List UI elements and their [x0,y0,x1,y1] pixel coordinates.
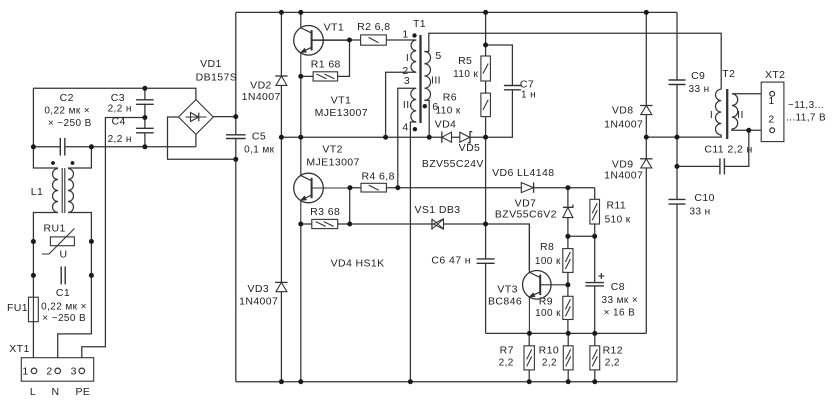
diode VD8 1N4007 [640,106,652,115]
wire T2 secondary bottom to XT2 pin2 [732,129,770,130]
svg-text:VD1: VD1 [200,58,222,70]
capacitor C10 33n [669,199,686,204]
svg-text:DB157S: DB157S [196,72,238,84]
wire VD2/VD3 vertical [280,12,282,381]
junction dot VT1 base node [347,38,352,43]
transformer T1 winding II [411,88,417,122]
svg-text:BZV55C6V2: BZV55C6V2 [495,209,557,221]
transformer T1 winding I [411,40,416,72]
svg-text:0,22 мк ×: 0,22 мк × [41,302,87,313]
svg-text:T2: T2 [722,68,735,80]
svg-text:2: 2 [46,366,52,378]
svg-text:R4 6,8: R4 6,8 [362,171,395,183]
svg-text:VT2: VT2 [322,143,342,155]
svg-text:C2: C2 [60,92,74,104]
diode VD6 LL4148 [521,182,533,192]
wire base row to R2 and T1 pin1 [312,39,417,41]
svg-text:110 к: 110 к [436,105,461,116]
svg-text:III: III [431,75,441,87]
junction dots VT2 base row [348,185,571,190]
svg-text:VD4: VD4 [435,119,457,131]
svg-text:II: II [737,109,744,121]
svg-text:2,2: 2,2 [499,358,514,369]
svg-text:I: I [710,109,713,121]
transistor VT1 MJE13007 [294,12,350,76]
wire C11 row [677,130,749,166]
svg-text:T1: T1 [413,18,426,30]
svg-text:R5: R5 [458,55,472,67]
diac VS1 DB3 [432,219,444,230]
capacitor C6 47n [477,259,495,263]
diode VD9 1N4007 [640,159,652,168]
svg-text:100 к: 100 к [535,256,561,267]
resistor R9 100k [563,296,573,319]
svg-text:II: II [403,99,410,111]
resistor R8 100k [563,249,573,273]
wire C3/C4 rail [144,88,146,147]
wire left input rail (L) [33,88,58,368]
wire control bottom row [486,332,647,334]
svg-text:33 мк ×: 33 мк × [602,295,639,306]
junction dots top rail [279,10,649,15]
zener diode VD7 BZV55C6V2 [563,205,573,218]
wire L net top row (choke to bridge AC1) [33,88,196,99]
wire VD8 junction row to T2 primary bottom [646,135,721,137]
svg-text:FU1: FU1 [7,302,28,314]
svg-text:VD5: VD5 [459,142,481,154]
wire C7 branch [486,45,513,137]
wire R11 branch [594,188,596,334]
svg-text:R6: R6 [443,91,457,103]
polarity dots T1 [412,33,427,131]
svg-text:C8: C8 [611,281,625,293]
svg-text:VD8: VD8 [612,105,634,117]
wire N row (C2 row to bridge AC2) [33,134,196,146]
wire VD7 branch [567,188,569,334]
plus sign C8 [598,273,604,279]
transformer T1 core [419,35,421,123]
svg-text:BC846: BC846 [488,295,522,307]
svg-text:MJE13007: MJE13007 [315,107,368,119]
svg-text:R9: R9 [539,295,553,307]
polarity dots L1 [51,161,74,165]
capacitor C5 0,1mk [226,135,246,139]
transformer T1 winding III [424,52,430,101]
wire -DC left rail lower (C5 bottom to bottom rail) [235,139,237,382]
svg-text:2,2: 2,2 [605,358,620,369]
svg-text:PE: PE [75,386,90,398]
svg-text:0,1 мк: 0,1 мк [244,144,275,155]
wire R5/R6 rail [485,12,487,137]
svg-text:N: N [52,386,60,398]
wire T1 pin4 down to bottom rail [410,122,416,382]
resistor R12 2,2 [590,346,600,370]
capacitor C1 0,22mk [61,266,65,284]
wire +DC left rail upper (to C5 top) [235,12,237,134]
svg-text:1: 1 [402,29,408,41]
svg-text:C6 47 н: C6 47 н [431,255,471,267]
bridge rectifier VD1 DB157S [179,100,214,135]
transistor VT2 MJE13007 [294,137,350,224]
wire VT2 base node vertical [349,188,351,224]
transformer T2 winding I [715,89,721,135]
wire VT1 emitter to VT2 collector [300,76,302,137]
inductor L1 core [62,168,65,213]
resistor R5 110k [481,56,491,81]
svg-text:2,2: 2,2 [542,358,557,369]
svg-text:1 н: 1 н [521,90,536,101]
junction dots DC bus [233,114,238,162]
junction dots VD8 row [644,135,680,140]
junction dot R5 top node [483,43,488,48]
wire PE line from C3/C4 midpoint to XT1 pin3 [82,118,145,369]
svg-text:VD4 HS1K: VD4 HS1K [331,257,385,269]
wire VT2 emitter down [300,224,302,382]
inductor L1 left winding [53,169,58,213]
junction dot VT3 base [565,282,570,287]
wire T1 pin6 down [424,100,429,137]
transformer T2 winding II [732,94,738,129]
svg-text:L: L [30,386,36,398]
svg-text:33 н: 33 н [689,207,710,218]
svg-text:100 к: 100 к [535,308,561,319]
svg-text:110 к: 110 к [453,69,478,80]
junction dots bottom rail [279,379,597,384]
wire R7 branch [528,333,530,381]
svg-text:R3 68: R3 68 [310,206,340,218]
wire T2 secondary top to XT2 pin1 [732,93,770,95]
svg-text:...11,7 В: ...11,7 В [786,113,826,124]
wire T1 pin2 to midpoint row [386,72,417,137]
varistor RU1 [42,229,75,255]
wire T1 pin5 to T2 primary [424,33,721,89]
wire T1 pin3 to R4 right [398,88,416,187]
svg-text:L1: L1 [31,186,43,198]
wire rail from VD5 node down through C6 [485,137,487,333]
svg-text:× ~250 В: × ~250 В [42,313,86,324]
diode VD3 1N4007 [275,282,287,291]
svg-text:R12: R12 [603,344,623,356]
svg-text:510 к: 510 к [605,215,631,226]
svg-text:~11,3...: ~11,3... [788,100,824,111]
capacitor C3 2,2n [136,100,154,105]
capacitor C7 1n [504,86,521,90]
resistor R2 6,8 [361,35,387,45]
junction dots VD7/R11 row [565,234,597,239]
wire R12 branch [594,333,596,381]
svg-text:C5: C5 [252,131,266,143]
transformer T2 core [726,89,728,139]
svg-text:C4: C4 [111,116,125,128]
svg-text:R2 6,8: R2 6,8 [357,21,390,33]
svg-text:C1: C1 [56,287,70,299]
svg-text:1N4007: 1N4007 [239,295,278,307]
wire VD8/VD9 rail [645,12,647,333]
capacitor C4 2,2n [136,128,154,133]
junction dot VT1 emitter / R1 [298,74,303,79]
resistor R7 2,2 [524,346,534,370]
junction dots input section [31,86,147,278]
wire midpoint row [281,136,485,138]
wire right input rail (N) [58,147,92,368]
svg-text:33 н: 33 н [688,84,709,95]
connector XT2 [761,82,784,142]
svg-text:0,22 мк ×: 0,22 мк × [44,106,90,117]
svg-text:R7: R7 [500,344,514,356]
svg-text:× 16 В: × 16 В [604,307,636,318]
transistor VT3 BC846 [523,270,568,333]
wire -DC bottom rail [236,381,677,383]
resistor R11 510k [590,199,600,224]
svg-text:5: 5 [435,50,441,62]
wire R4 row / VT2 base row [350,187,595,189]
wire R10 branch [567,333,569,381]
svg-text:1: 1 [768,95,774,107]
resistor R10 2,2 [563,346,573,370]
diode VD2 1N4007 [275,76,287,85]
wire bridge minus corner to -rail [168,117,236,159]
svg-text:1N4007: 1N4007 [604,119,643,131]
svg-text:VT1: VT1 [331,95,351,107]
svg-text:R10: R10 [539,344,559,356]
zener diode VD5 BZV55C24V [460,132,473,143]
svg-text:VT1: VT1 [324,21,344,33]
wire +DC top rail [236,11,677,13]
svg-text:RU1: RU1 [43,223,65,235]
svg-text:XT1: XT1 [9,343,29,355]
svg-text:MJE13007: MJE13007 [306,157,359,169]
svg-text:2,2 н: 2,2 н [108,134,132,145]
wire right rail C9/C10 branch [676,12,678,381]
svg-text:3: 3 [404,75,410,87]
junction dots VS1 row [298,222,488,227]
resistor R6 110k [481,93,491,117]
svg-text:VD3: VD3 [247,283,269,295]
capacitor C9 33n [669,80,686,85]
svg-text:C3: C3 [111,92,125,104]
diode VD4 HS1K [442,132,452,143]
svg-text:VS1 DB3: VS1 DB3 [415,204,461,216]
junction dot C11 row [675,164,680,169]
wire VT3 collector from VS1 row [528,224,530,270]
resistor R1 68 [313,72,338,81]
svg-text:C9: C9 [691,70,705,82]
junction dots control bottom row [527,331,597,336]
resistor R3 68 [312,219,338,228]
svg-text:VD6 LL4148: VD6 LL4148 [492,167,554,179]
svg-text:C10: C10 [694,192,714,204]
svg-text:× ~250 В: × ~250 В [48,118,92,129]
wire R3/VS1 row [301,224,530,271]
wire bridge plus corner to +rail [213,116,236,118]
svg-text:VD2: VD2 [250,80,272,92]
svg-text:2,2 н: 2,2 н [108,104,132,115]
svg-text:C11 2,2 н: C11 2,2 н [704,144,752,156]
capacitor C8 33mk electrolytic [585,283,604,286]
capacitor C2 0,22mk [60,138,65,156]
svg-text:XT2: XT2 [765,69,785,81]
svg-text:VT3: VT3 [497,284,517,296]
inductor L1 right winding [68,169,74,213]
connector XT1 [21,358,93,382]
svg-text:I: I [406,52,409,64]
capacitor C11 2,2n [720,158,725,174]
wire R1 row [301,40,350,76]
svg-text:1N4007: 1N4007 [242,91,281,103]
resistor R4 6,8 [361,183,386,192]
svg-text:1N4007: 1N4007 [604,170,643,182]
svg-text:R1 68: R1 68 [311,59,341,71]
svg-text:BZV55C24V: BZV55C24V [422,158,484,170]
junction dot XT2 pin2 branch [746,128,751,133]
svg-text:1: 1 [22,366,28,378]
svg-text:R8: R8 [540,241,554,253]
svg-text:U: U [60,249,68,261]
svg-text:4: 4 [402,122,408,134]
svg-text:3: 3 [71,366,77,378]
svg-text:2: 2 [768,113,774,125]
wire VD7-R11 junction row [568,235,595,237]
svg-text:R11: R11 [606,200,626,212]
fuse FU1 [29,297,39,322]
junction dots midpoint row [279,135,488,140]
